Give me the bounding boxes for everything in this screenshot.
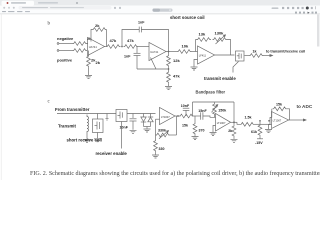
label -15V bbox=[255, 141, 263, 145]
tab favicon bbox=[7, 2, 9, 4]
svg-text:-15V: -15V bbox=[255, 141, 263, 145]
wire (feedback bus top) bbox=[193, 101, 235, 103]
svg-text:Bandpass filter: Bandpass filter bbox=[196, 89, 226, 94]
ground bbox=[94, 139, 101, 142]
svg-text:15nF: 15nF bbox=[198, 109, 207, 113]
browser toolbar bbox=[0, 6, 320, 14]
svg-text:2k: 2k bbox=[95, 23, 100, 28]
svg-text:2k: 2k bbox=[96, 60, 101, 65]
label receiver enable bbox=[96, 151, 128, 156]
svg-text:Transmit: Transmit bbox=[58, 124, 76, 129]
svg-text:2k: 2k bbox=[228, 129, 232, 133]
ground bbox=[265, 130, 272, 133]
analog switch S2 (short receive coil) bbox=[93, 114, 104, 139]
potentiometer R13 330k (feedback) bbox=[156, 116, 177, 140]
svg-text:receiver enable: receiver enable bbox=[96, 151, 128, 156]
node divider junction bbox=[168, 69, 169, 70]
resistor R12 1k bbox=[249, 50, 271, 58]
svg-text:47k: 47k bbox=[110, 38, 117, 43]
diode D2 bbox=[148, 114, 153, 127]
menu dots bbox=[314, 6, 317, 9]
node output U4 bbox=[177, 115, 178, 116]
wire bbox=[215, 54, 235, 56]
op-amp U2 UA741 bbox=[149, 43, 166, 61]
page left border bbox=[0, 14, 2, 180]
svg-text:negative: negative bbox=[57, 36, 74, 41]
svg-text:15k: 15k bbox=[276, 102, 282, 106]
page background bbox=[0, 0, 320, 180]
resistor R8 47k bbox=[167, 69, 181, 86]
node output U5 bbox=[233, 122, 234, 123]
toolbar icons right bbox=[272, 7, 279, 9]
resistor R21 15k (feedback) bbox=[272, 102, 290, 120]
wire (main input line) bbox=[57, 113, 116, 115]
wire bbox=[59, 50, 73, 52]
op-amp U4 LT1007 bbox=[160, 108, 176, 125]
svg-text:330k: 330k bbox=[158, 129, 166, 133]
svg-text:13k: 13k bbox=[199, 32, 206, 37]
svg-text:15k: 15k bbox=[182, 123, 188, 127]
ground bbox=[231, 139, 238, 142]
wire bbox=[144, 127, 151, 129]
resistor R1 2k (negative input) bbox=[73, 42, 88, 46]
op-amp U3 LF411 bbox=[198, 46, 215, 64]
wire (feedback bus vertical) bbox=[192, 102, 194, 116]
svg-text:LF411: LF411 bbox=[199, 54, 207, 58]
svg-text:1.5k: 1.5k bbox=[245, 115, 252, 119]
bookmark items bbox=[2, 11, 6, 12]
resistor R19 1.5k bbox=[240, 115, 270, 126]
diode D1 bbox=[141, 114, 146, 127]
capacitor C4 10nF (to feedback bus) bbox=[181, 104, 190, 116]
node: negative input terminal bbox=[57, 43, 59, 45]
node stub bbox=[106, 114, 109, 121]
analog switch S3 (receiver enable) bbox=[116, 110, 127, 122]
label to transmit/receive coil bbox=[266, 50, 305, 54]
resistor R9 10k bbox=[177, 44, 198, 54]
wire (lower feedback) bbox=[137, 58, 169, 70]
subfigure label c bbox=[48, 99, 51, 104]
resistor R6 47k bbox=[124, 38, 139, 48]
svg-text:short source coil: short source coil bbox=[170, 15, 205, 20]
nav arrows bbox=[3, 7, 5, 9]
wire (non-inverting to ground) bbox=[213, 126, 216, 133]
ground bbox=[84, 139, 91, 142]
svg-text:12k: 12k bbox=[173, 58, 180, 63]
svg-text:transmit enable: transmit enable bbox=[204, 76, 236, 81]
wire bbox=[289, 119, 305, 121]
op-amp U6 LT1007 bbox=[272, 112, 289, 129]
label short source coil bbox=[170, 15, 205, 20]
label From transmitter bbox=[55, 107, 90, 112]
node inverting input U6 bbox=[269, 120, 270, 121]
node A junction bbox=[122, 46, 123, 47]
new tab plus bbox=[76, 2, 78, 4]
toolbar divider bbox=[0, 13, 320, 15]
svg-text:LT1007: LT1007 bbox=[273, 119, 282, 123]
profile avatar bbox=[306, 7, 309, 10]
ground bbox=[85, 75, 92, 78]
inactive tab title smudge bbox=[38, 2, 58, 3]
svg-text:UA741: UA741 bbox=[89, 45, 98, 49]
wire bbox=[175, 115, 179, 117]
wire bbox=[127, 113, 156, 115]
svg-text:47k: 47k bbox=[127, 38, 134, 43]
resistor R16 370 bbox=[193, 116, 204, 136]
wire bbox=[237, 122, 240, 124]
wire (jog up into op-amp) bbox=[270, 118, 272, 125]
address bar pill bbox=[19, 6, 112, 10]
resistor R14 330 bbox=[154, 140, 165, 155]
ground bbox=[210, 133, 217, 136]
wire bbox=[166, 51, 177, 53]
address text smudge bbox=[22, 7, 48, 8]
svg-text:to transmit/receive coil: to transmit/receive coil bbox=[266, 50, 305, 54]
scrollbar thumb bbox=[317, 15, 319, 47]
ground bbox=[130, 130, 137, 133]
wire bbox=[245, 55, 250, 57]
ground bbox=[192, 137, 199, 140]
label negative 2k bbox=[57, 36, 92, 41]
svg-text:to ADC: to ADC bbox=[297, 104, 313, 109]
potentiometer R11 130k bbox=[213, 31, 231, 56]
op-amp U5 LT1007 bbox=[216, 114, 231, 132]
wire (switch control) bbox=[233, 62, 239, 73]
wire bbox=[105, 46, 107, 48]
capacitor C2 1nF (shunt) bbox=[124, 47, 141, 70]
capacitor C5 15nF (series) bbox=[198, 109, 207, 120]
subfigure label b bbox=[48, 21, 51, 26]
ground bbox=[191, 67, 198, 70]
svg-text:LT1007: LT1007 bbox=[217, 121, 226, 125]
capacitor C3 10nF (shunt) bbox=[120, 114, 137, 130]
label to ADC bbox=[297, 104, 313, 109]
svg-text:61k: 61k bbox=[251, 130, 257, 134]
op-amp U1 UA741 bbox=[88, 38, 105, 56]
svg-text:10k: 10k bbox=[182, 44, 189, 49]
inductor L1 receive coil bbox=[87, 115, 89, 139]
node junction 61k bbox=[260, 120, 261, 121]
active browser tab bbox=[2, 1, 35, 6]
svg-text:150k: 150k bbox=[218, 109, 226, 113]
label Transmit bbox=[58, 124, 76, 129]
svg-text:LT1007: LT1007 bbox=[161, 115, 170, 119]
svg-text:47k: 47k bbox=[173, 74, 180, 79]
label Bandpass filter bbox=[196, 89, 226, 94]
resistor R4 2k (to ground) bbox=[87, 51, 101, 76]
svg-text:370: 370 bbox=[199, 128, 205, 132]
resistor R7 12k bbox=[167, 52, 181, 70]
node: output arrow to coil bbox=[270, 55, 273, 57]
capacitor C1 1nF (feedback loop top) bbox=[122, 20, 169, 51]
svg-text:1nF: 1nF bbox=[138, 20, 145, 24]
svg-text:330: 330 bbox=[159, 147, 165, 151]
label short receive coil bbox=[67, 138, 102, 143]
svg-text:130k: 130k bbox=[215, 31, 225, 36]
resistor R2 2k (feedback op-amp U1) bbox=[91, 23, 107, 47]
wire bbox=[138, 46, 149, 48]
node: positive input terminal bbox=[57, 50, 59, 52]
svg-text:10nF: 10nF bbox=[120, 126, 129, 130]
wire bbox=[59, 43, 73, 45]
wire (non-inverting to ground) bbox=[269, 125, 272, 130]
resistor R10 13k (feedback) bbox=[196, 32, 212, 52]
ground bbox=[152, 155, 159, 158]
wire (non-inverting to ground) bbox=[194, 60, 198, 67]
download chip bbox=[153, 9, 173, 12]
resistor R15 15k bbox=[179, 114, 201, 127]
potentiometer R17 150k (vertical) bbox=[212, 102, 227, 117]
label transmit enable bbox=[204, 76, 236, 81]
node: output arrow to ADC bbox=[303, 119, 306, 121]
resistor R5 47k bbox=[106, 38, 121, 48]
svg-text:1nF: 1nF bbox=[124, 55, 131, 59]
resistor R20 61k bbox=[251, 121, 263, 139]
wire bbox=[231, 102, 237, 122]
svg-text:positive: positive bbox=[57, 58, 73, 63]
ground bbox=[144, 129, 151, 132]
svg-text:short receive coil: short receive coil bbox=[67, 138, 102, 143]
svg-text:From transmitter: From transmitter bbox=[55, 107, 90, 112]
secondary icon row bbox=[295, 12, 317, 14]
svg-text:UA741: UA741 bbox=[150, 50, 159, 54]
svg-text:FIG. 2. Schematic diagrams sh: FIG. 2. Schematic diagrams showing the c… bbox=[30, 170, 320, 177]
wire with jog into op-amp bbox=[203, 116, 216, 117]
analog switch S1 (transmit enable) bbox=[236, 51, 245, 61]
tab title smudge bbox=[11, 2, 26, 3]
node output U2 bbox=[168, 51, 169, 52]
label positive 2k bbox=[57, 58, 96, 63]
wire (switch control) bbox=[121, 122, 123, 149]
browser tab bar bbox=[0, 0, 320, 6]
ground bbox=[165, 87, 172, 90]
svg-text:1k: 1k bbox=[253, 50, 257, 54]
svg-text:10nF: 10nF bbox=[181, 104, 190, 108]
wire bbox=[87, 43, 88, 45]
resistor R3 2k (positive input) bbox=[73, 49, 88, 53]
resistor R18 2k bbox=[228, 122, 236, 139]
